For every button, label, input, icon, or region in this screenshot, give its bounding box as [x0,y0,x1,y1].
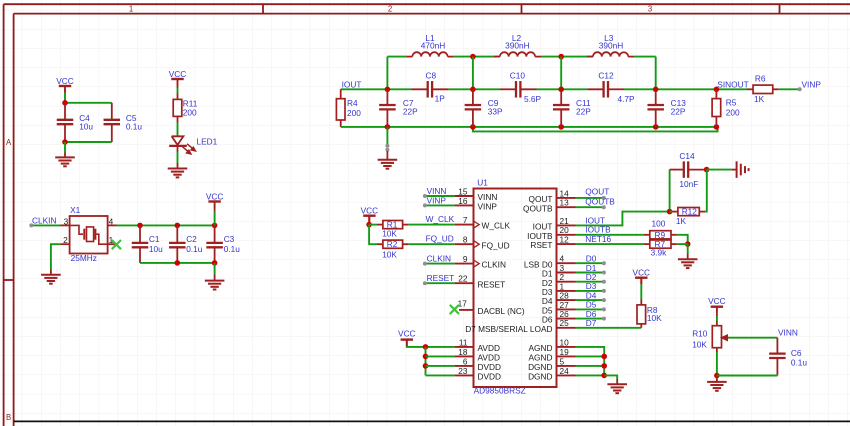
node junction C14 right [704,167,710,173]
capacitor C9 (shunt) [472,89,474,105]
svg-text:33P: 33P [488,107,503,117]
svg-text:9: 9 [463,254,468,264]
wire riser main to top rail at C7 node [386,57,388,90]
wire C14 to sideways ground [707,169,732,171]
node junction main at R5/SINOUT [714,87,720,93]
svg-text:W_CLK: W_CLK [426,214,455,224]
wire LED1 to ground [177,146,179,152]
pin 5 DGND of U1 [557,365,576,367]
svg-text:22P: 22P [576,107,591,117]
svg-text:DGND: DGND [528,372,552,382]
svg-text:4.7P: 4.7P [618,94,636,104]
wire C4/C5 bottom [65,141,112,143]
potentiometer R10 [712,326,721,348]
node D6 stub end [602,317,606,321]
svg-text:C2: C2 [186,234,197,244]
svg-text:R10: R10 [692,328,708,338]
node CLKIN stub end [29,223,33,227]
svg-text:0.1u: 0.1u [126,121,143,131]
svg-text:7: 7 [463,215,468,225]
wire QOUTB [576,206,604,208]
capacitor C11 (shunt) [560,89,562,105]
svg-text:2: 2 [388,5,392,14]
wire R6 to VINP [779,88,800,90]
power VCC (U1 supply) [401,338,413,340]
svg-text:22P: 22P [403,107,418,117]
pin 18 AVDD of U1 [455,355,474,357]
svg-text:5.6P: 5.6P [524,94,542,104]
node junction rail at C7 [385,124,391,130]
wire RESET to pin 22 [425,282,455,284]
svg-text:CLKIN: CLKIN [482,260,506,270]
wire DGND pin 24 [576,374,605,376]
no-connect cross on pin 17 [450,305,459,314]
svg-text:200: 200 [726,107,740,117]
svg-text:8: 8 [463,235,468,245]
wire VCC to C4/C5 top [64,97,66,103]
wire D2 [576,281,604,283]
pin 2 D2 of U1 [557,281,576,283]
svg-text:R2: R2 [387,239,398,249]
ground below R7/R9 [678,258,698,260]
svg-text:10K: 10K [692,339,707,349]
capacitor C8 (series) [412,88,428,90]
pin 1 D3 of U1 [557,290,576,292]
wire IOUT pin 21 to R12/C14 node [576,212,670,226]
resistor R6 (series to VINP) [747,88,753,90]
wire IOUT node up to C14 [669,170,671,212]
ground below LED1 [168,168,188,170]
svg-text:1K: 1K [754,94,765,104]
svg-text:R4: R4 [347,98,358,108]
node junction C2 bottom [175,260,181,266]
node QOUTB stub end [602,205,606,209]
wire R11 to LED1 [177,116,179,122]
wire VCC to rail [214,208,216,211]
wire VCC to W_CLK node [368,216,370,224]
pin 23 DVDD of U1 [455,374,474,376]
capacitor C1 [139,225,141,243]
node junction bus pin6 [423,363,429,369]
wire C6 bottom to R10 bottom [717,375,778,377]
svg-text:0.1u: 0.1u [791,358,808,368]
svg-text:22: 22 [458,274,468,284]
svg-text:VCC: VCC [56,76,74,86]
svg-text:0.1u: 0.1u [186,244,203,254]
wire top rail to main line right [634,56,656,58]
svg-text:U1: U1 [477,178,488,188]
node D1 stub end [602,271,606,275]
svg-text:AGND: AGND [529,343,553,353]
svg-text:RESET: RESET [427,273,455,283]
ground below X1 pin 2 [41,274,61,276]
svg-text:R6: R6 [755,74,766,84]
pin 10 AGND of U1 [557,346,576,348]
LED LED1 [172,136,184,145]
wire to ground [64,142,66,153]
node RESET stub end [423,281,427,285]
svg-text:3: 3 [648,5,652,14]
pin 15 VINN of U1 [455,195,474,197]
svg-text:VCC: VCC [708,296,726,306]
pin 7 W_CLK of U1 [455,224,474,226]
wire filter node to ground [386,127,388,145]
pin 20 IOUTB of U1 [557,234,576,236]
svg-text:W_CLK: W_CLK [482,221,511,231]
svg-text:AD9850BRSZ: AD9850BRSZ [474,386,526,396]
node junction bus pin11 [423,344,429,350]
svg-text:SINOUT: SINOUT [717,79,748,89]
svg-text:470nH: 470nH [421,41,445,51]
node junction R12/C14 left [667,209,673,215]
node junction C2 top [175,223,181,229]
svg-text:NET16: NET16 [585,234,611,244]
svg-text:DVDD: DVDD [478,372,502,382]
power VCC (LED branch) [171,78,183,80]
svg-text:10K: 10K [382,249,397,259]
node wire-end dot 2 [385,148,389,152]
wire top rail [387,56,406,58]
wire R10 wiper to VINN/C6 [729,337,778,339]
pin 11 AVDD of U1 [455,346,474,348]
ground below C4 [55,156,75,158]
capacitor C4 [64,103,66,120]
ground below R10 [707,381,727,383]
svg-text:1P: 1P [435,94,446,104]
node junction bus pin18 [423,354,429,360]
pin 19 AGND of U1 [557,355,576,357]
pin 4 LSB D0 of U1 [557,262,576,264]
wire W_CLK to pin 7 [408,224,454,226]
svg-text:12: 12 [560,235,570,245]
svg-text:QOUT: QOUT [585,187,609,197]
svg-text:10: 10 [560,337,570,347]
resistor R1 [369,224,377,226]
pin 8 FQ_UD of U1 [455,243,474,245]
svg-text:X1: X1 [70,205,81,215]
resistor R12 [670,211,672,213]
node junction R7/R9 [685,241,691,247]
wire FQ_UD to pin 8 [408,243,454,245]
pin 26 D6 of U1 [557,318,576,320]
node wire-end dot 1 [385,144,389,148]
capacitor C2 [176,225,178,243]
node junction gnd bus pin5 [601,363,607,369]
resistor R8 pull-up [640,324,642,328]
wire riser at C9 [472,57,474,90]
svg-text:1K: 1K [676,216,687,226]
capacitor C3 [214,225,216,243]
pin 3 D1 of U1 [557,272,576,274]
wire D7 to R8 [576,327,642,329]
wire R7 node to ground [677,243,688,245]
capacitor C5 [111,103,113,120]
power VCC (R10) [711,306,723,308]
wire X1 pin 4 to VCC rail [117,224,215,226]
pin 6 DVDD of U1 [455,365,474,367]
power VCC (pull-ups R1/R2) [363,214,375,216]
svg-text:23: 23 [458,366,468,376]
svg-text:DGND: DGND [528,362,552,372]
svg-text:11: 11 [459,337,468,347]
svg-text:17: 17 [458,298,468,308]
wire filter ground rail lower run [473,127,718,131]
wire IOUT main line left [341,88,412,90]
svg-text:VINP: VINP [802,79,822,89]
svg-text:DVDD: DVDD [478,362,502,372]
node VINN stub end [423,194,427,198]
pin 24 DGND of U1 [557,374,576,376]
node junction R10 bottom [714,373,720,379]
svg-text:22P: 22P [671,107,686,117]
svg-text:VCC: VCC [398,328,416,338]
node junction rail at C13 [653,124,659,130]
node junction main at C9 [470,87,476,93]
wire VCC branch down to R2 [369,225,377,245]
svg-text:C10: C10 [510,70,526,80]
pin 21 IOUT of U1 [557,224,576,226]
node VINP stub end [798,87,802,91]
wire main line C12-R5 [624,88,747,90]
node VINP stub end [423,203,427,207]
svg-text:200: 200 [347,108,361,118]
wire R10 bottom to ground [716,348,718,352]
X1 pin 4 stub [108,224,117,226]
node junction C4/C5 top [62,100,68,106]
wire AGND pin 19 [576,355,605,357]
capacitor C14 [670,169,684,171]
pin 27 D5 of U1 [557,308,576,310]
wire X1 pin 2 to ground [60,243,69,245]
svg-text:3.9k: 3.9k [651,248,668,258]
no-connect cross on X1 pin 1 [112,240,121,249]
pin 17 DACBL (NC) of U1 [459,309,474,311]
svg-text:13: 13 [560,198,570,208]
svg-text:QOUTB: QOUTB [585,197,615,207]
svg-text:R5: R5 [726,98,737,108]
svg-text:CLKIN: CLKIN [427,254,451,264]
node junction R1 left [366,222,372,228]
node junction top at C9 riser [470,54,476,60]
svg-text:25: 25 [560,318,570,328]
wire IOUTB to R9 [576,234,644,236]
svg-text:D7 MSB/SERIAL LOAD: D7 MSB/SERIAL LOAD [465,324,552,334]
svg-text:6: 6 [463,356,468,366]
svg-text:AGND: AGND [529,353,553,363]
svg-text:DACBL (NC): DACBL (NC) [478,306,525,316]
wire D0 [576,262,604,264]
wire R9 right to junction [677,235,688,244]
svg-text:RESET: RESET [478,279,506,289]
svg-text:A: A [6,138,12,147]
node junction C3/VCC top [212,223,218,229]
svg-text:C8: C8 [426,70,437,80]
wire D3 [576,290,604,292]
node junction main at C7 [385,87,391,93]
wire CLKIN to X1 pin 3 [31,224,60,226]
node junction top at C11 riser [558,54,564,60]
node junction C4/C5 bottom [62,139,68,145]
svg-text:10u: 10u [149,244,163,254]
ground right of C14 (sideways) [736,161,738,178]
resistor R4 [340,89,342,98]
wire R12 right up to C14 right [705,170,707,212]
resistor R11 [173,99,182,116]
svg-text:VCC: VCC [206,191,224,201]
svg-text:16: 16 [458,196,468,206]
svg-text:390nH: 390nH [505,41,529,51]
svg-text:100: 100 [652,218,666,228]
wire DGND pin 5 [576,365,605,367]
svg-text:19: 19 [560,347,570,357]
svg-text:200: 200 [183,107,197,117]
svg-text:24: 24 [560,366,570,376]
wire QOUT [576,197,604,199]
resistor R2 [377,243,383,245]
svg-text:C1: C1 [149,234,160,244]
node QOUT stub end [602,196,606,200]
wire rail to ground [214,263,216,275]
capacitor C12 (series) [588,88,604,90]
wire VCC to R10 [716,313,718,316]
svg-text:VCC: VCC [633,267,651,277]
svg-text:CLKIN: CLKIN [32,215,56,225]
svg-text:0.1u: 0.1u [224,244,241,254]
svg-text:10nF: 10nF [679,179,698,189]
resistor R5 [715,89,717,98]
svg-text:RSET: RSET [530,240,552,250]
wire DVDD pin 23 [426,374,455,376]
wire CLKIN to pin 9 [425,263,455,265]
node junction main at C11 [558,87,564,93]
node D0 stub end [602,261,606,265]
svg-text:3: 3 [64,216,69,226]
wire main line C8-C10 [449,88,500,90]
wire VCC to R11 [177,86,179,89]
pin 13 QOUTB of U1 [557,206,576,208]
svg-text:VINP: VINP [427,196,447,206]
svg-text:25MHz: 25MHz [71,253,97,263]
wire riser at C11 [560,57,562,90]
op-amp U1 AD9850BRSZ body [474,189,557,388]
pin 12 RSET of U1 [557,243,576,245]
wire VINN [425,195,455,197]
node junction gnd bus pin24 [601,373,607,379]
wire D1 [576,272,604,274]
node junction main at C13 [653,87,659,93]
wire D6 [576,318,604,320]
capacitor C10 (series) [500,88,516,90]
svg-text:18: 18 [458,347,468,357]
svg-text:C3: C3 [224,234,235,244]
svg-text:C14: C14 [679,151,695,161]
wire VINP [425,204,455,206]
wire supply bus vertical [425,347,427,376]
svg-text:VCC: VCC [169,69,187,79]
node junction C1 top [137,223,143,229]
node D2 stub end [602,280,606,284]
pin 25 D7 MSB/SERIAL LOAD of U1 [557,327,576,329]
wire top rail L1-L2 [454,56,500,58]
svg-text:QOUTB: QOUTB [523,203,553,213]
svg-text:FQ_UD: FQ_UD [482,240,510,250]
svg-text:FQ_UD: FQ_UD [426,234,454,244]
wire top rail L2-L3 [541,56,593,58]
node D5 stub end [602,307,606,311]
svg-text:VINN: VINN [778,328,798,338]
capacitor C13 (shunt) [655,89,657,105]
wire caps bottom rail [140,262,215,264]
svg-text:390nH: 390nH [599,41,623,51]
crystal X1 [70,216,108,254]
wire AGND pin 10 [576,347,605,376]
resistor R9 [644,234,650,236]
power VCC (crystal caps) [208,200,220,202]
svg-text:D7: D7 [586,318,597,328]
wire filter ground rail [341,126,717,128]
ground below filter [378,159,398,161]
svg-text:10K: 10K [382,229,397,239]
pin 14 QOUT of U1 [557,197,576,199]
svg-text:B: B [6,413,11,422]
inductor L1 [406,56,412,58]
wire D5 [576,308,604,310]
svg-text:AVDD: AVDD [478,343,500,353]
node junction C3 bottom [212,260,218,266]
wire DVDD pin 6 [426,365,455,367]
svg-text:AVDD: AVDD [478,353,500,363]
power VCC (R8) [635,277,647,279]
wire D4 [576,299,604,301]
wire main line C10-C12 [537,88,588,90]
svg-text:10K: 10K [647,313,662,323]
wire VCC to AVDD bus [407,345,426,348]
power VCC (C4/C5 bypass) [59,85,71,87]
ground below U1 [607,383,627,385]
wire AVDD pin 11 [426,346,455,348]
pin 28 D4 of U1 [557,299,576,301]
wire AVDD pin 18 [426,355,455,357]
node CLKIN stub end [423,262,427,266]
pin 22 RESET of U1 [455,282,474,284]
svg-text:VCC: VCC [361,206,379,216]
svg-text:1: 1 [129,5,133,14]
inductor L2 [494,56,500,58]
wire gnd bus to ground symbol [604,375,617,379]
node junction rail at R5 [714,124,720,130]
X1 pin 1 stub with no-connect [108,243,117,245]
ground below C3 [205,280,225,282]
capacitor C6 [776,338,778,354]
svg-text:LED1: LED1 [197,137,218,147]
node junction gnd bus pin19 [601,354,607,360]
svg-text:10u: 10u [79,121,93,131]
svg-text:VINP: VINP [478,202,498,212]
pin 16 VINP of U1 [455,204,474,206]
capacitor C7 (shunt) [386,89,388,105]
svg-text:C12: C12 [598,70,614,80]
pin 9 CLKIN of U1 [455,263,474,265]
node D4 stub end [602,298,606,302]
node junction rail at C11 [558,124,564,130]
resistor R7 [644,243,650,245]
svg-text:IOUT: IOUT [342,79,362,89]
inductor L3 [587,56,593,58]
wire NET16 to R7 [576,243,644,245]
svg-text:5: 5 [560,356,565,366]
node D3 stub end [602,289,606,293]
node junction rail at C9 [470,124,476,130]
